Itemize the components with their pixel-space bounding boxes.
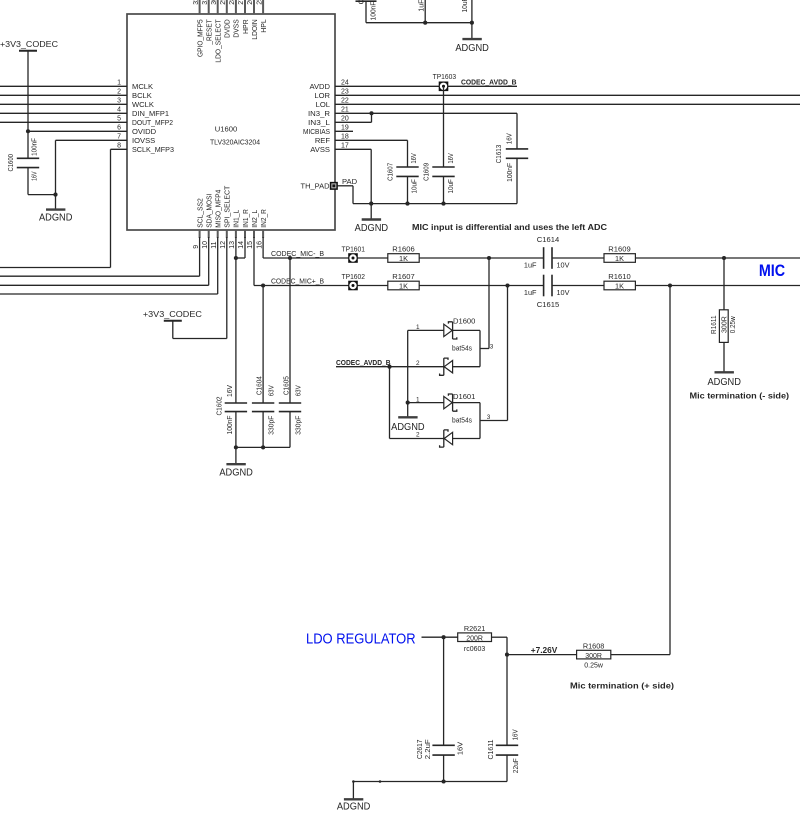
annotation: MIC input note (412, 222, 607, 232)
svg-text:21: 21 (341, 107, 349, 114)
pin 20 (IN3_L) label (308, 116, 349, 127)
node: row1 right section to MIC (552, 256, 800, 260)
svg-text:30: 30 (211, 0, 218, 5)
wire row2 junction down to C1604 (262, 286, 264, 404)
wire pin 12 to +3V3_CODEC (173, 237, 227, 339)
svg-text:63V: 63V (293, 385, 302, 396)
pin 24 (AVDD) label (309, 80, 348, 91)
svg-text:+3V3_CODEC: +3V3_CODEC (0, 40, 58, 49)
svg-text:ADGND: ADGND (355, 223, 389, 234)
capacitor stub (100nF, top, cut off) (356, 0, 378, 23)
wire D1601 pin 3 up to row2 (507, 286, 509, 421)
svg-text:0.25w: 0.25w (584, 662, 604, 669)
wire row1 junction down to C1605 (289, 258, 291, 403)
svg-text:IN1_L: IN1_L (232, 210, 241, 228)
test point TP1602 (342, 272, 366, 290)
svg-text:D1601: D1601 (453, 392, 475, 401)
net CODEC_AVDD_B label (diode section) (336, 358, 391, 367)
svg-text:3: 3 (487, 414, 491, 421)
resistor R1610 1K (604, 272, 635, 291)
svg-text:7: 7 (117, 134, 121, 141)
svg-text:1uF: 1uF (417, 0, 426, 12)
svg-text:10: 10 (202, 241, 209, 249)
svg-text:+3V3_CODEC: +3V3_CODEC (143, 310, 202, 319)
capacitor C1614 1uF 10V (524, 235, 570, 269)
svg-text:CODEC_AVDD_B: CODEC_AVDD_B (461, 78, 517, 87)
wire AVSS (pin 17) to ADGND rail (335, 149, 373, 205)
capacitor C1607 10uF 16V (385, 153, 418, 204)
wire pin 9 to left edge (0, 237, 200, 276)
wire TH_PAD to ADGND rail (338, 186, 354, 204)
svg-text:Mic termination (+ side): Mic termination (+ side) (570, 681, 674, 691)
svg-text:WCLK: WCLK (132, 100, 154, 109)
test point TP1601 (342, 244, 366, 262)
svg-text:SDA_MOSI: SDA_MOSI (205, 194, 214, 228)
svg-text:ADGND: ADGND (391, 422, 425, 433)
pin 5 (DOUT_MFP2) wire (0, 116, 173, 127)
svg-text:16V: 16V (29, 171, 38, 180)
svg-text:PAD: PAD (342, 177, 358, 186)
svg-text:25: 25 (256, 0, 263, 5)
resistor R1611 300R 0.25w (vertical) (709, 310, 737, 343)
svg-text:R1608: R1608 (583, 642, 605, 651)
svg-text:0.25w: 0.25w (730, 315, 737, 333)
pin 32 (GPIO_MFP5) top stub (193, 0, 205, 57)
svg-text:TH_PAD: TH_PAD (301, 182, 330, 191)
svg-text:AVSS: AVSS (310, 145, 330, 154)
svg-text:C1615: C1615 (537, 300, 559, 309)
svg-text:DVDD: DVDD (223, 19, 232, 38)
svg-text:C: C (357, 0, 366, 4)
svg-text:15: 15 (247, 241, 254, 249)
svg-text:C1604: C1604 (254, 376, 263, 395)
svg-text:330pF: 330pF (293, 415, 302, 434)
pin 8 (SCLK_MFP3) wire (0, 143, 174, 268)
svg-text:IOVSS: IOVSS (132, 136, 155, 145)
wire row2 junction down to R1608 output (669, 286, 671, 655)
svg-text:IN3_L: IN3_L (308, 118, 330, 127)
svg-text:10V: 10V (557, 288, 570, 297)
resistor R1606 1K (388, 244, 419, 263)
svg-text:R1610: R1610 (608, 272, 630, 281)
svg-text:16V: 16V (225, 385, 234, 397)
svg-text:LDO REGULATOR: LDO REGULATOR (306, 632, 416, 648)
pin 31 (RESET) top stub (202, 0, 214, 45)
svg-text:18: 18 (341, 134, 349, 141)
svg-text:R1606: R1606 (392, 244, 414, 253)
svg-text:C1600: C1600 (6, 154, 15, 172)
svg-text:200R: 200R (466, 635, 483, 642)
wire row1 junction down to R1611 (723, 258, 725, 310)
pin 26 (LDOIN) top stub (247, 0, 259, 40)
svg-text:100nF: 100nF (505, 162, 514, 181)
pin 27 (HPR) top stub (238, 0, 250, 34)
wire REF (pin 18) to C1607 (335, 140, 408, 167)
svg-text:C1605: C1605 (281, 376, 290, 395)
wire R2621 input down to C2617 (443, 637, 445, 745)
pin 6 (OVIDD) wire from +3V3_CODEC (26, 125, 157, 136)
svg-text:CODEC_MIC-_B: CODEC_MIC-_B (271, 249, 324, 258)
capacitor stub (1uF, top, cut off) (417, 0, 428, 25)
svg-text:27: 27 (238, 0, 245, 5)
svg-text:IN2_R: IN2_R (259, 209, 268, 228)
pin 14 (IN1_R) bottom stub (238, 209, 250, 249)
svg-text:2.2uF: 2.2uF (423, 739, 432, 760)
wire C1600 to ADGND junction (28, 193, 58, 197)
svg-text:MCLK: MCLK (132, 82, 153, 91)
svg-text:IN2_L: IN2_L (250, 210, 259, 228)
svg-text:bat54s: bat54s (452, 416, 472, 425)
svg-text:MIC input is differential and: MIC input is differential and uses the l… (412, 222, 607, 232)
svg-text:C1613: C1613 (494, 145, 503, 164)
svg-text:ADGND: ADGND (707, 377, 741, 388)
svg-text:8: 8 (117, 143, 121, 150)
capacitor C1609 10uF 16V (422, 153, 456, 204)
pin 10 (SDA_MOSI) bottom stub (202, 194, 214, 249)
svg-text:14: 14 (238, 241, 245, 249)
svg-text:C1602: C1602 (215, 397, 224, 416)
svg-text:100nF: 100nF (368, 1, 377, 20)
svg-text:ADGND: ADGND (337, 801, 371, 812)
pin 17 (AVSS) label (310, 143, 349, 154)
svg-text:LDO_SELECT: LDO_SELECT (214, 19, 223, 63)
svg-text:6: 6 (117, 125, 121, 132)
svg-text:16V: 16V (456, 742, 465, 755)
svg-text:LOR: LOR (314, 91, 330, 100)
svg-text:24: 24 (341, 80, 349, 87)
ground ADGND (top) (455, 23, 489, 54)
svg-text:ADGND: ADGND (39, 212, 73, 223)
pin 30 (LDO_SELECT) top stub (211, 0, 223, 63)
svg-text:bat54s: bat54s (452, 343, 472, 352)
thermal pad TH_PAD (301, 177, 358, 191)
wire pin 10 to left edge (0, 237, 209, 285)
capacitor C1602 100nF 16V (215, 385, 248, 448)
pin 11 (MISO_MFP4) bottom stub (211, 190, 223, 249)
svg-text:1: 1 (416, 324, 420, 331)
stub MICBIAS (pin 19) (335, 130, 353, 132)
svg-text:9: 9 (193, 245, 200, 249)
wire IN3_L (pin 20) tied to IN3_R (335, 113, 372, 122)
svg-text:SCL_SS2: SCL_SS2 (195, 198, 204, 228)
wire R1611 to ADGND (723, 342, 725, 372)
pin 2 (BCLK) wire (0, 89, 152, 100)
capacitor stub (10uF, top, cut off) (460, 0, 474, 25)
wire TP1603 to C1609 (443, 86, 445, 167)
pin 22 (LOL) label (316, 98, 349, 109)
svg-text:10uF: 10uF (460, 0, 469, 13)
net label MIC (blue) (759, 261, 785, 280)
svg-text:AVDD: AVDD (309, 82, 330, 91)
svg-text:TP1601: TP1601 (342, 244, 366, 253)
svg-text:23: 23 (341, 89, 349, 96)
svg-text:19: 19 (341, 125, 349, 132)
svg-text:MICBIAS: MICBIAS (303, 127, 330, 136)
svg-text:TP1602: TP1602 (342, 272, 366, 281)
annotation: LDO REGULATOR (blue) (306, 632, 416, 648)
IC U1600 TLV320AIC3204 (127, 14, 335, 230)
svg-text:2: 2 (416, 360, 420, 367)
svg-text:OVIDD: OVIDD (132, 127, 157, 136)
svg-text:LDOIN: LDOIN (250, 19, 259, 39)
wire pin 15 (IN2_L) to CODEC_MIC+_B (253, 237, 255, 286)
svg-text:20: 20 (341, 116, 349, 123)
capacitor C1604 330pF 63V (252, 376, 275, 447)
svg-text:26: 26 (247, 0, 254, 5)
svg-text:330pF: 330pF (266, 415, 275, 434)
svg-text:10uF: 10uF (410, 179, 419, 194)
svg-text:GPIO_MFP5: GPIO_MFP5 (195, 19, 204, 57)
resistor R1607 1K (388, 272, 419, 291)
svg-text:+7.26V: +7.26V (531, 645, 558, 655)
net CODEC_MIC+_B wire (row 2) (254, 277, 544, 288)
wire LOL (pin 22) (335, 103, 800, 105)
wire IN3_R (pin 21) to C1613 (335, 111, 517, 115)
wire cap bottom rail (234, 445, 290, 449)
svg-text:IN3_R: IN3_R (308, 109, 331, 118)
pin 28 (DVSS) top stub (229, 0, 241, 38)
svg-text:CODEC_MIC+_B: CODEC_MIC+_B (271, 277, 324, 286)
pin 13 (IN1_L) bottom stub (229, 210, 241, 249)
svg-text:1: 1 (416, 396, 420, 403)
svg-text:4: 4 (117, 107, 121, 114)
svg-text:1uF: 1uF (524, 288, 537, 297)
svg-text:22: 22 (341, 98, 349, 105)
diode D1601 bat54s (390, 392, 508, 447)
svg-text:IN1_R: IN1_R (241, 209, 250, 228)
svg-text:22uF: 22uF (511, 758, 520, 773)
wire CODEC_AVDD_B to D1600 pin 2 (336, 365, 444, 369)
svg-text:SPI_SELECT: SPI_SELECT (223, 185, 232, 227)
svg-text:R2621: R2621 (464, 624, 486, 633)
net CODEC_MIC-_B wire (row 1) (263, 249, 543, 260)
wire top cap rail (366, 22, 472, 24)
pin 7 (IOVSS) wire to ADGND (56, 134, 156, 195)
svg-text:CODEC_AVDD_B: CODEC_AVDD_B (336, 358, 391, 367)
pin 21 (IN3_R) label (308, 107, 349, 118)
svg-text:REF: REF (315, 136, 331, 145)
svg-text:100nF: 100nF (29, 138, 38, 156)
wire pin 13 (IN1_L) down to C1602 (235, 237, 237, 403)
svg-text:13: 13 (229, 241, 236, 249)
test point TP1603 (433, 72, 457, 91)
svg-text:SCLK_MFP3: SCLK_MFP3 (132, 145, 174, 154)
pin 12 (SPI_SELECT) bottom stub (220, 185, 232, 248)
capacitor C1615 1uF 10V (524, 275, 570, 310)
wire R2621 to +7.26V node (492, 637, 510, 656)
svg-text:C1607: C1607 (385, 163, 394, 181)
svg-text:300R: 300R (722, 316, 729, 333)
node: row2 right section to MIC (552, 283, 800, 287)
svg-text:12: 12 (220, 241, 227, 249)
svg-text:63V: 63V (266, 385, 275, 396)
ground ADGND (bottom) (337, 782, 371, 813)
pin 9 (SCL_SS2) bottom stub (193, 198, 205, 249)
svg-text:1: 1 (117, 80, 121, 87)
svg-text:1K: 1K (399, 282, 408, 291)
svg-text:1uF: 1uF (524, 260, 537, 269)
svg-text:300R: 300R (585, 653, 602, 660)
wire bottom rail (LDO section) (352, 779, 507, 783)
svg-text:1K: 1K (615, 282, 624, 291)
svg-text:10uF: 10uF (446, 179, 455, 194)
capacitor C2617 2.2uF 16V (415, 739, 465, 782)
svg-text:17: 17 (341, 143, 349, 150)
svg-text:rc0603: rc0603 (464, 646, 486, 653)
ground ADGND (diode section) (391, 417, 425, 433)
svg-text:TP1603: TP1603 (433, 72, 457, 81)
svg-text:_RESET: _RESET (205, 19, 214, 45)
svg-text:3: 3 (117, 98, 121, 105)
svg-text:DVSS: DVSS (232, 19, 241, 37)
svg-text:16V: 16V (504, 133, 513, 144)
svg-text:HPR: HPR (241, 19, 250, 34)
svg-text:LOL: LOL (316, 100, 330, 109)
svg-text:R1609: R1609 (608, 244, 630, 253)
svg-text:11: 11 (211, 241, 218, 248)
power +3V3_CODEC (top left) (0, 40, 58, 132)
svg-text:16: 16 (256, 241, 263, 249)
pin 1 (MCLK) wire (0, 80, 153, 91)
svg-text:5: 5 (117, 116, 121, 123)
svg-text:31: 31 (202, 0, 209, 5)
svg-text:DIN_MFP1: DIN_MFP1 (132, 109, 169, 118)
wire pin 16 (IN2_R) to CODEC_MIC-_B (262, 237, 264, 258)
capacitor C1613 100nF 16V (494, 113, 528, 203)
capacitor C1600 100nF 16V (6, 131, 39, 194)
svg-text:D1600: D1600 (453, 316, 475, 325)
wire pin 14 (IN1_R) joins pin 13 (234, 237, 245, 260)
svg-text:DOUT_MFP2: DOUT_MFP2 (132, 118, 173, 127)
svg-text:29: 29 (220, 0, 227, 5)
diode D1600 bat54s (408, 316, 494, 375)
pin 19 (MICBIAS) label (303, 125, 349, 136)
svg-text:1K: 1K (399, 254, 408, 263)
svg-text:U1600: U1600 (215, 125, 237, 134)
pin 25 (HPL) top stub (256, 0, 268, 33)
svg-text:16V: 16V (446, 153, 455, 164)
resistor R1609 1K (604, 244, 635, 263)
svg-text:16V: 16V (409, 153, 418, 164)
svg-text:HPL: HPL (259, 19, 268, 33)
svg-text:MISO_MFP4: MISO_MFP4 (214, 190, 223, 228)
pin 18 (REF) label (315, 134, 349, 145)
net CODEC_AVDD_B wire from pin 24 (335, 78, 517, 87)
wire ADGND rail (under C1607/C1609/C1613) (353, 202, 517, 206)
annotation: Mic termination (- side) (690, 391, 790, 401)
svg-text:28: 28 (229, 0, 236, 5)
svg-text:16V: 16V (510, 729, 519, 740)
svg-text:BCLK: BCLK (132, 91, 152, 100)
ground ADGND (mic - termination) (707, 372, 741, 388)
capacitor C1611 22uF 16V (486, 729, 520, 781)
svg-text:TLV320AIC3204: TLV320AIC3204 (210, 138, 260, 147)
svg-text:ADGND: ADGND (455, 43, 489, 54)
svg-text:3: 3 (490, 343, 494, 350)
pin 4 (DIN_MFP1) wire (0, 107, 169, 118)
pin 3 (WCLK) wire (0, 98, 154, 109)
pin 29 (DVDD) top stub (220, 0, 232, 38)
power +3V3_CODEC (middle) (143, 310, 202, 321)
wire R1608 to mic+ vertical (611, 654, 670, 656)
capacitor C1605 330pF 63V (279, 376, 303, 447)
resistor R1608 300R 0.25w (577, 642, 611, 670)
wire pin 11 to left edge (0, 237, 218, 294)
svg-text:R1607: R1607 (392, 272, 414, 281)
svg-text:C1611: C1611 (486, 740, 495, 760)
wire LOR (pin 23) (335, 94, 800, 96)
svg-text:ADGND: ADGND (219, 467, 253, 478)
annotation: Mic termination (+ side) (570, 681, 674, 691)
wire CODEC_AVDD_B down to D1601 pin 2 (389, 367, 391, 439)
svg-text:Mic termination (- side): Mic termination (- side) (690, 391, 790, 401)
net +7.26V wire (507, 645, 577, 655)
wire LDO to R2621 (422, 635, 458, 639)
svg-text:2: 2 (416, 431, 420, 438)
ground ADGND (left, under C1600) (39, 195, 73, 224)
svg-text:1K: 1K (615, 254, 624, 263)
pin 23 (LOR) label (314, 89, 349, 100)
svg-text:2: 2 (117, 89, 121, 96)
svg-text:100nF: 100nF (225, 415, 234, 434)
wire D1600 pin 3 up to row1 (488, 258, 490, 349)
ground ADGND (under IC right) (355, 204, 389, 234)
wire D1600 pin 1 down (to ADGND / D1601 pin 1) (406, 330, 410, 417)
resistor R2621 200R rc0603 (458, 624, 492, 653)
pin 15 (IN2_L) bottom stub (247, 210, 259, 249)
svg-text:R1611: R1611 (709, 315, 718, 334)
svg-text:32: 32 (193, 0, 200, 5)
ground ADGND (under C1602) (219, 447, 253, 478)
svg-text:C1609: C1609 (422, 163, 431, 181)
svg-text:MIC: MIC (759, 261, 785, 280)
svg-text:C1614: C1614 (537, 235, 559, 244)
pin 16 (IN2_R) bottom stub (256, 209, 268, 249)
svg-text:10V: 10V (557, 260, 570, 269)
wire +7.26V node down to C1611 (506, 655, 508, 746)
